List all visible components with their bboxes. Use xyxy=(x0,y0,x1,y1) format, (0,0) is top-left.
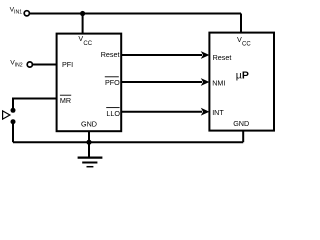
wire Reset to Reset xyxy=(122,54,202,56)
svg-text:GND: GND xyxy=(81,119,97,128)
svg-text:IN1: IN1 xyxy=(14,10,22,16)
node INT arrowhead xyxy=(201,108,210,116)
junction ground rail xyxy=(86,140,91,145)
svg-text:PFO: PFO xyxy=(105,78,120,87)
svg-text:IN2: IN2 xyxy=(15,63,23,69)
wire MR pin to switch xyxy=(13,99,57,109)
svg-text:µP: µP xyxy=(236,70,249,82)
wire junction to supervisor VCC pin xyxy=(82,14,84,35)
svg-text:CC: CC xyxy=(242,42,251,48)
wire LLO to INT xyxy=(122,111,202,113)
svg-text:Reset: Reset xyxy=(101,50,120,59)
svg-text:NMI: NMI xyxy=(212,79,225,88)
wire VIN1 to VCC rail xyxy=(30,13,241,15)
IC U1 voltage supervisor xyxy=(57,34,122,132)
wire switch to ground rail xyxy=(12,124,14,142)
svg-text:LLO: LLO xyxy=(106,109,120,118)
junction VCC rail to supervisor xyxy=(80,11,85,16)
wire VCC rail drop to microprocessor VCC pin xyxy=(240,14,242,33)
svg-text:Reset: Reset xyxy=(213,53,232,62)
IC U2 microprocessor xyxy=(209,33,274,131)
wire ground rail xyxy=(13,141,243,143)
wire supervisor GND pin to ground rail xyxy=(88,131,90,142)
wire VIN2 to PFI pin xyxy=(33,64,57,66)
node VIN2 terminal xyxy=(10,59,32,68)
svg-text:GND: GND xyxy=(233,119,249,128)
node NMI arrowhead xyxy=(201,78,210,86)
ground xyxy=(78,142,103,167)
svg-text:MR: MR xyxy=(60,96,71,105)
svg-text:PFI: PFI xyxy=(62,60,73,69)
svg-text:CC: CC xyxy=(83,41,92,47)
svg-text:INT: INT xyxy=(212,108,224,117)
node VIN1 terminal xyxy=(10,7,30,16)
wire microprocessor GND pin to ground rail xyxy=(242,131,244,143)
wire PFO to NMI xyxy=(122,81,202,83)
node Reset arrowhead xyxy=(201,51,210,59)
switch S1 manual-reset pushbutton xyxy=(3,108,16,124)
